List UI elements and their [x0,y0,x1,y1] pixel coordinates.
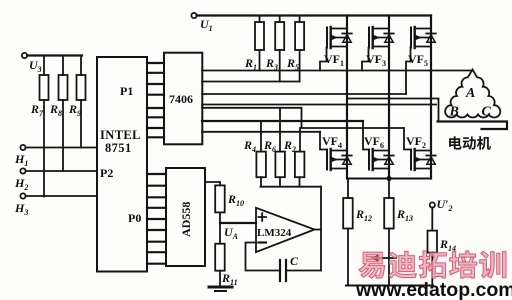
motor winding (scalloped triangle) [445,70,500,118]
wire gate line 5 [202,104,436,106]
svg-text:U1: U1 [200,17,213,33]
resistor R10 [215,185,225,212]
wire capacitor to output [287,270,321,272]
resistor R9 [80,56,82,76]
bus P0 to AD558 (9 wires) [147,174,166,264]
svg-text:P0: P0 [128,211,141,225]
bus P1 to 7406 (8 wires) [147,63,164,137]
wire phase B to motor [347,99,439,121]
watermark 易迪拓培训 [359,251,506,279]
svg-text:H2: H2 [14,176,28,192]
IC 7406 box [164,53,202,145]
terminal H3 [20,193,25,198]
svg-text:LM324: LM324 [257,227,292,239]
IC AD558 box [166,168,205,266]
svg-text:VF6: VF6 [364,134,384,150]
wire drain rail column 3 [430,16,432,179]
svg-text:U′2: U′2 [437,197,453,213]
wire R12 to ground rail [347,229,349,286]
transistor VF5 [411,27,436,48]
wire +U1 top rail [197,14,431,16]
diode VF3 body [384,33,393,35]
svg-text:C: C [290,254,299,268]
wire R7 to H3 line [43,100,45,197]
svg-text:B: B [449,105,459,120]
label + input [259,213,267,221]
wire gate line 8 (to VF4) [202,131,320,133]
svg-text:P2: P2 [100,166,113,180]
svg-text:R11: R11 [221,271,238,287]
wire R1 to gate line [259,50,261,71]
wire H1 [26,147,97,149]
terminal H2 [20,168,25,173]
svg-text:VF1: VF1 [324,52,344,68]
ground [209,286,232,289]
wire gate line 2 / phase A line to motor [202,70,472,72]
wiper arrow [374,257,396,259]
svg-text:VF2: VF2 [406,134,426,150]
terminal U2 [430,202,435,207]
wire gate line 7 (to VF6) [202,120,363,122]
svg-text:C: C [482,105,492,120]
svg-text:R10: R10 [227,192,244,208]
svg-text:R2: R2 [283,138,296,154]
wire R5 to gate line [299,50,301,82]
resistor R6 [279,108,281,152]
wire op-amp output [315,229,322,231]
svg-text:VF5: VF5 [408,52,428,68]
wire U2 to R14 [431,208,433,231]
wire H3 [26,195,97,197]
wire R10 to R11 node UA [219,212,221,243]
wire R13 to ground rail [388,229,390,286]
IC U-8751 INTEL box [97,57,147,272]
wire bottom ground rail [346,285,433,287]
op-amp U-LM324 [256,208,315,252]
wire drain rail column 2 [388,16,390,179]
svg-text:R14: R14 [439,237,456,253]
svg-text:U3: U3 [29,58,42,74]
svg-text:P1: P1 [120,84,133,98]
diode VF4 body [342,155,351,157]
wire R14 to ground rail [431,253,433,286]
capacitor C [279,260,281,281]
resistor R8 [62,56,64,76]
svg-text:VF4: VF4 [322,134,342,150]
wire gate line 3 [202,81,300,83]
junction dot [386,176,391,181]
diode VF2 body [426,155,435,157]
transistor VF3 [369,27,394,48]
wire R11 to ground [219,271,221,286]
wire output node vertical [320,187,322,271]
wire motor base line [438,122,508,130]
wire R9 to H1 line [80,100,82,148]
wire H2 [26,170,97,172]
svg-text:H1: H1 [14,152,28,168]
resistor R7 [43,56,45,76]
wire source sense rail [347,178,431,180]
svg-text:8751: 8751 [105,141,132,155]
wire gate line 6 (to VF2) [202,108,404,128]
resistor R1 [259,16,261,23]
resistor R4 [260,121,262,152]
svg-text:UA: UA [224,225,239,241]
svg-text:R8: R8 [49,102,62,118]
wire VF1 gate riser [320,48,327,71]
svg-text:7406: 7406 [169,92,193,106]
resistor R11 [215,244,225,271]
svg-text:R9: R9 [68,102,81,118]
svg-text:H3: H3 [14,201,28,217]
resistor R13 [388,179,390,199]
label - input [259,241,267,243]
wire lower resistor bus to op-amp output [260,177,262,187]
resistor R3 [279,16,281,23]
wire - input feedback [246,243,279,271]
label motor 电动机 [449,136,491,150]
wire AD558 output to R10 [205,182,220,185]
svg-text:A: A [465,86,475,101]
diode VF1 body [342,33,351,35]
diode VF5 body [426,33,435,35]
svg-text:INTEL: INTEL [100,128,141,142]
svg-text:R13: R13 [396,207,413,223]
resistor R2 [299,128,301,152]
svg-text:VF3: VF3 [366,52,386,68]
terminal H1 [20,145,25,150]
transistor VF2 [411,149,436,170]
svg-text:R6: R6 [263,138,276,154]
resistor R14 [428,231,438,253]
transistor VF6 [369,149,394,170]
svg-text:R7: R7 [30,102,44,118]
transistor VF4 [327,149,352,170]
wire VF3 gate riser [362,48,369,71]
wire UA to op-amp + input [220,222,256,224]
wire gate line 4 (to VF5) [202,93,406,95]
svg-text:R12: R12 [355,207,372,223]
wire U3 top rail [27,54,82,56]
wire R8 to H2 line [62,100,64,171]
svg-text:www.edatop.com: www.edatop.com [355,279,512,300]
terminal U3 [22,53,27,58]
resistor R5 [299,16,301,23]
transistor VF1 [327,27,352,48]
wire R3 to gate line [279,50,281,82]
wire drain rail column 1 [346,16,348,179]
terminal U1 [191,13,196,18]
diode VF6 body [384,155,393,157]
svg-text:AD558: AD558 [179,202,193,237]
svg-text:R4: R4 [243,138,256,154]
resistor R12 [347,179,349,199]
